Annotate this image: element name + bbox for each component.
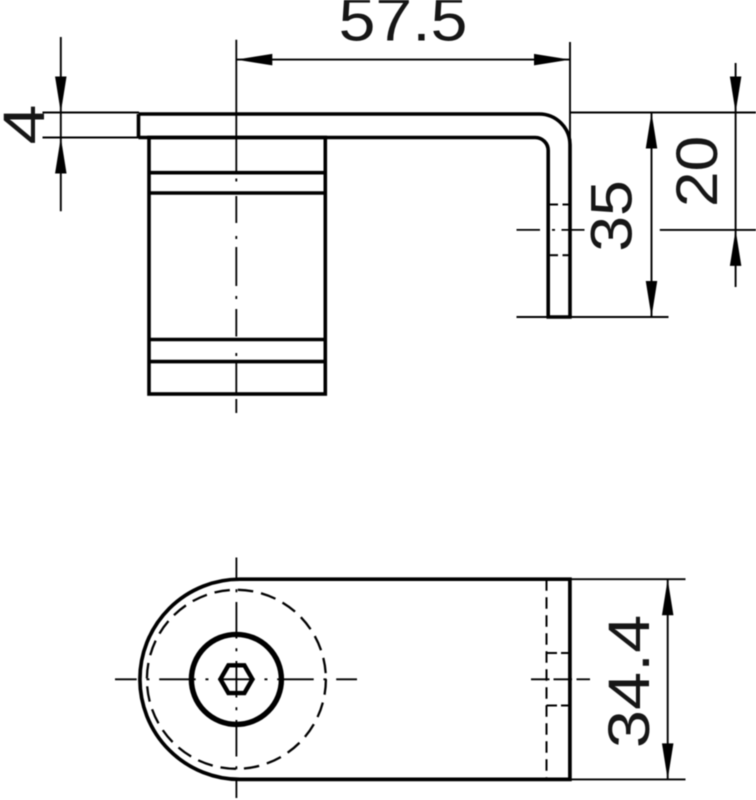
svg-text:35: 35 xyxy=(579,180,644,252)
svg-text:4: 4 xyxy=(0,105,57,145)
svg-text:20: 20 xyxy=(665,136,730,207)
svg-text:34.4: 34.4 xyxy=(597,615,662,748)
svg-text:57.5: 57.5 xyxy=(339,0,468,54)
